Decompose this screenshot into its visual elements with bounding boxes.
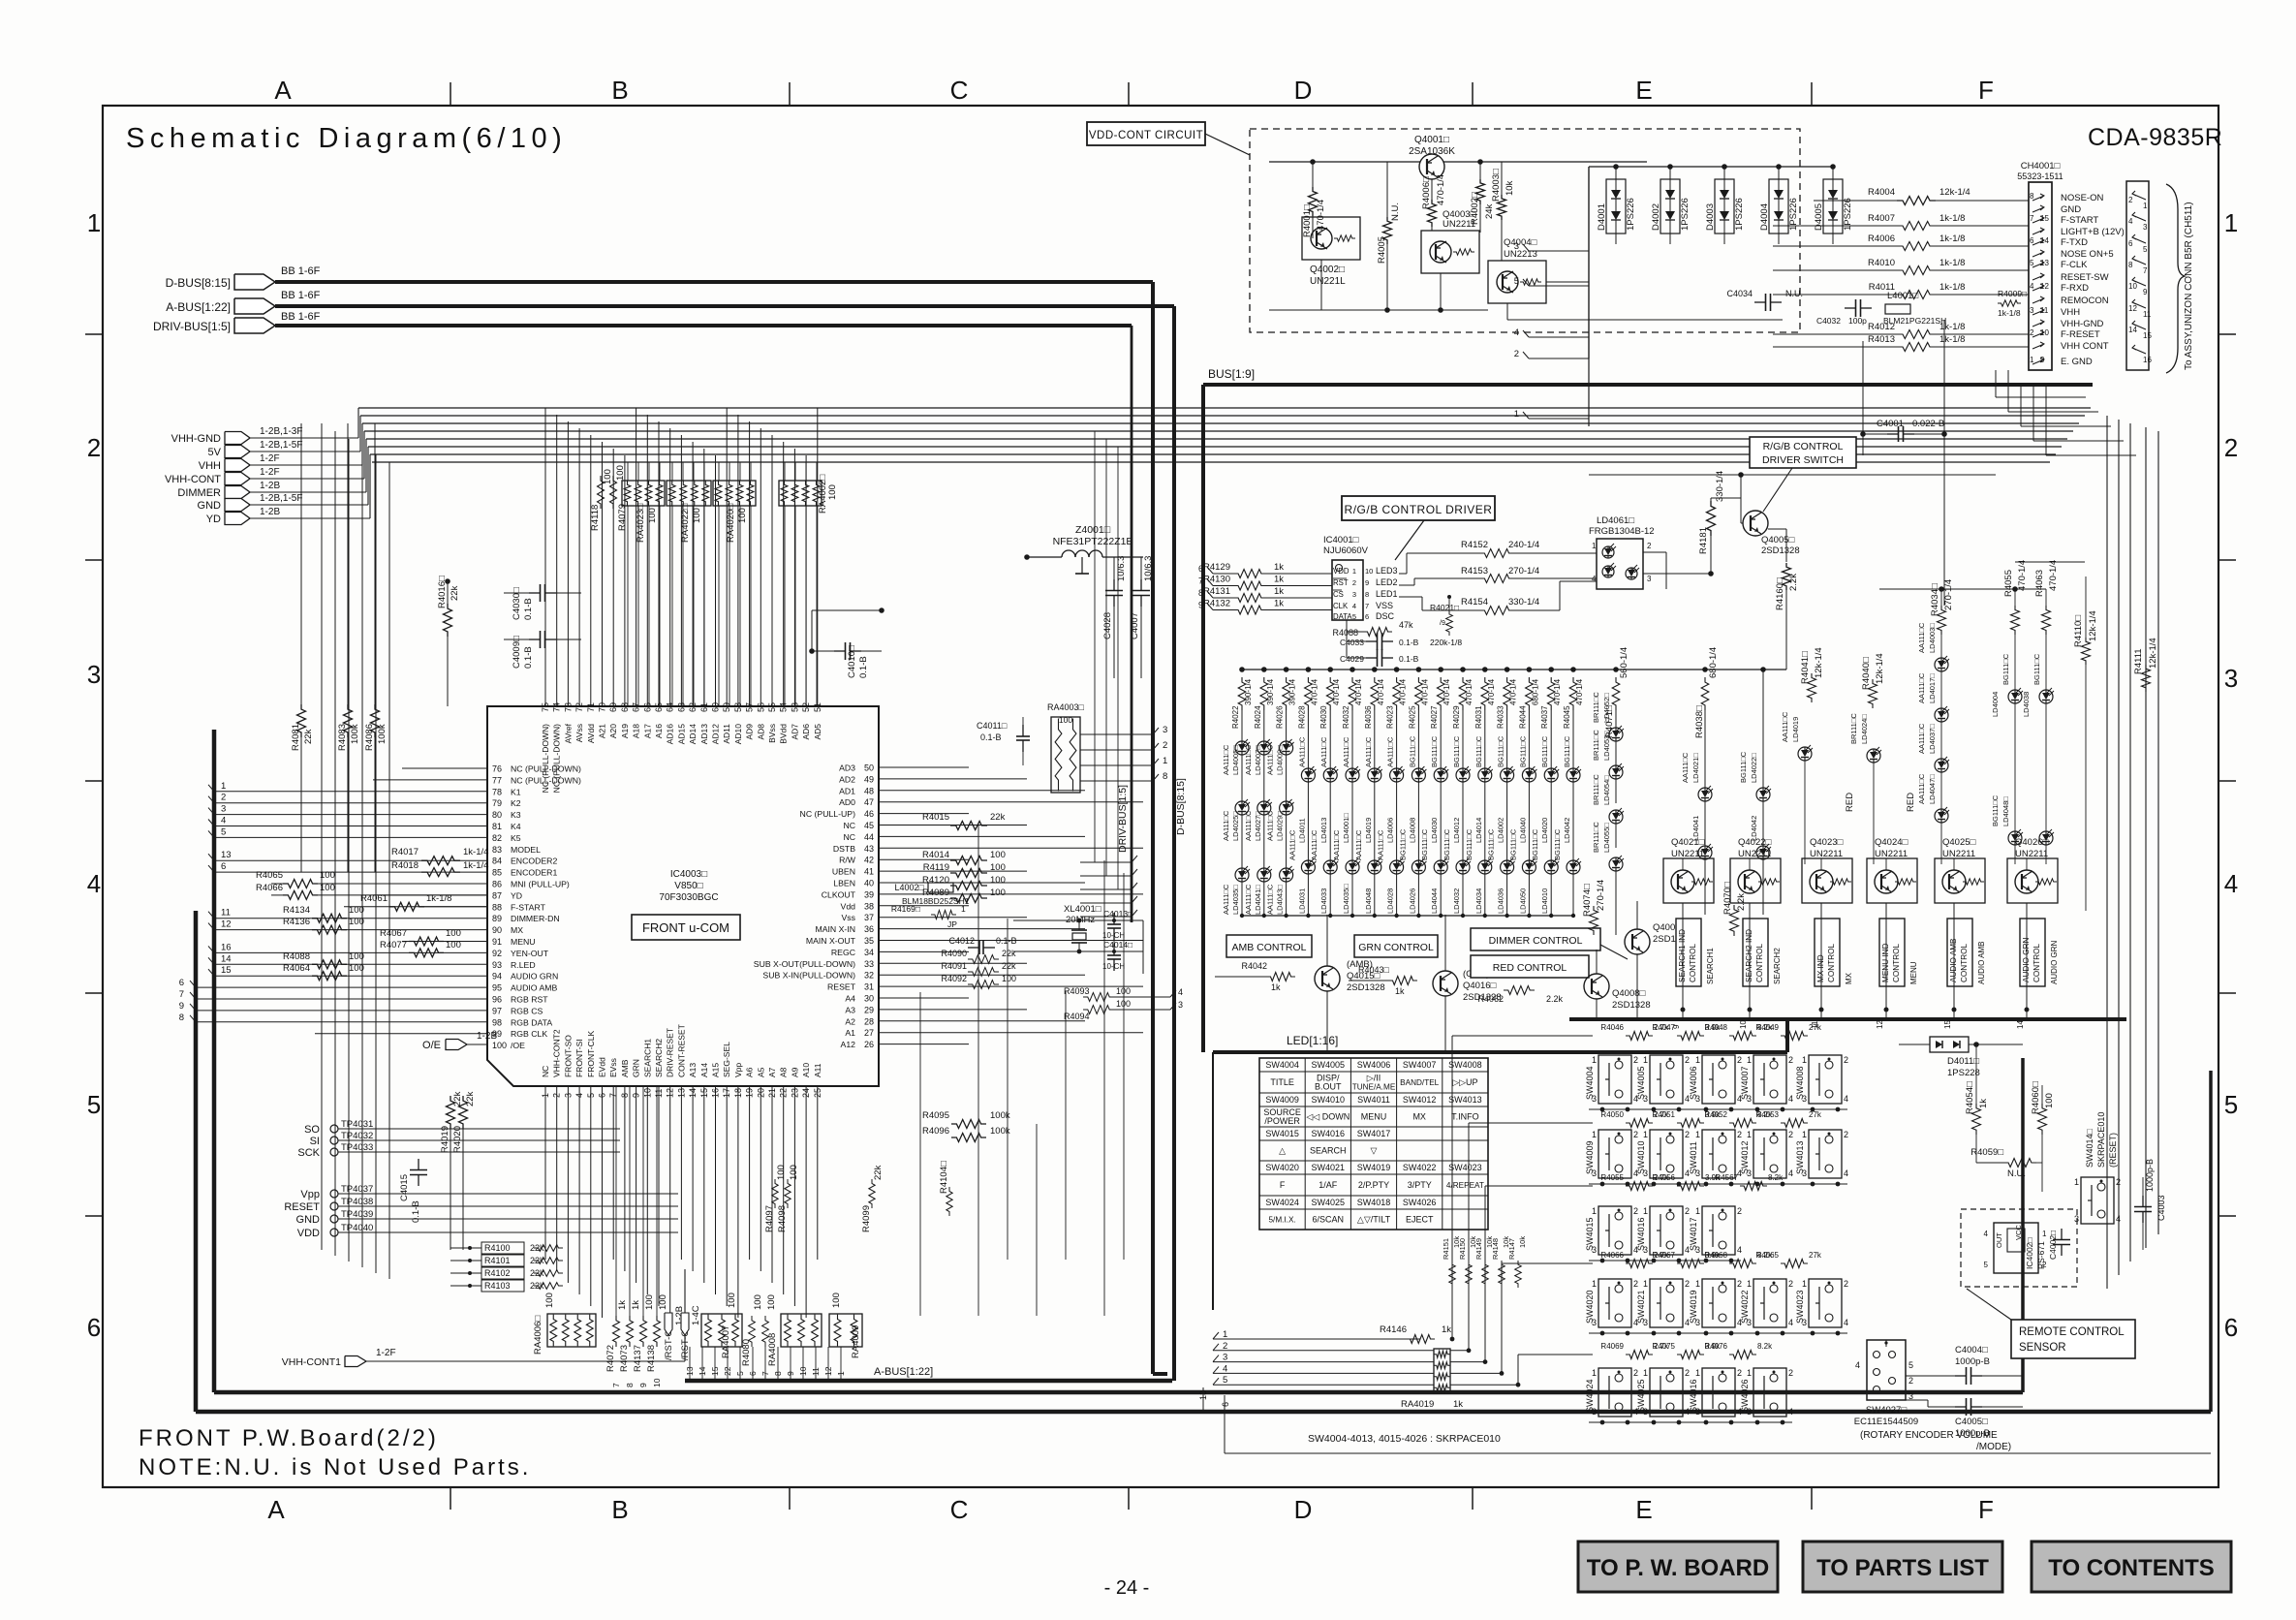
svg-text:A15: A15 [711, 1063, 721, 1077]
svg-text:1: 1 [1352, 567, 1356, 576]
svg-text:BG111□C: BG111□C [1408, 735, 1416, 767]
svg-text:47: 47 [864, 797, 874, 807]
resistor R4025 470-1/4 vertical [1416, 667, 1422, 672]
svg-text:470-1/4: 470-1/4 [1443, 678, 1451, 705]
svg-text:R4153: R4153 [1461, 566, 1488, 576]
svg-text:CONTROL: CONTROL [1960, 944, 1969, 982]
svg-text:6: 6 [1365, 612, 1369, 621]
svg-text:2: 2 [1685, 1130, 1690, 1139]
svg-text:470-1/4: 470-1/4 [1553, 678, 1562, 705]
svg-text:R4080: R4080 [741, 1339, 752, 1366]
svg-text:1: 1 [1643, 1279, 1648, 1289]
svg-text:1PS226: 1PS226 [1734, 198, 1745, 231]
svg-text:12: 12 [1876, 1020, 1884, 1029]
svg-text:100: 100 [766, 1294, 777, 1310]
svg-text:C4004□: C4004□ [1955, 1345, 1988, 1355]
svg-text:BG111□C: BG111□C [1553, 828, 1562, 860]
svg-text:AA111□C: AA111□C [1310, 829, 1319, 860]
svg-text:1: 1 [1163, 756, 1167, 766]
svg-text:AUDIO GRN: AUDIO GRN [511, 972, 558, 981]
svg-text:76: 76 [492, 764, 502, 774]
svg-text:BG111□C: BG111□C [1465, 828, 1474, 860]
svg-text:100k: 100k [350, 724, 360, 744]
LED column R4023 diodes [1396, 710, 1398, 768]
capacitor C4005 1000p-B [1955, 1406, 1967, 1408]
switch SW4006 SKRPACE010 [1702, 1055, 1735, 1104]
svg-text:SW4006: SW4006 [1357, 1060, 1391, 1070]
svg-text:R4061: R4061 [360, 893, 388, 904]
svg-text:9: 9 [1198, 601, 1203, 610]
svg-text:BG111□C: BG111□C [1398, 828, 1407, 860]
resistor R4016 22k vertical [444, 604, 452, 637]
svg-text:2: 2 [1633, 1130, 1638, 1139]
resistor R4021 220k-1/8 vertical [1446, 610, 1453, 636]
svg-text:100: 100 [1059, 715, 1072, 725]
resistor R4001 470-1/4 vertical [1309, 187, 1318, 216]
control label box AUDIO AMB CONTROL [1947, 919, 1972, 986]
svg-text:2: 2 [2042, 1261, 2047, 1269]
svg-text:C4003: C4003 [2156, 1195, 2166, 1221]
svg-text:R4148: R4148 [1491, 1238, 1500, 1260]
svg-text:MODEL: MODEL [511, 845, 541, 855]
svg-text:R4097: R4097 [764, 1205, 775, 1232]
svg-text:R4028: R4028 [1297, 705, 1306, 729]
resistor R4092 100 [968, 981, 999, 989]
svg-text:270-1/4: 270-1/4 [1508, 566, 1539, 576]
svg-text:C4001: C4001 [1877, 419, 1904, 429]
svg-text:A17: A17 [642, 724, 652, 738]
svg-text:22k: 22k [1002, 961, 1016, 971]
svg-text:LD4042: LD4042 [1563, 818, 1571, 843]
svg-text:LD4048□: LD4048□ [2001, 796, 2010, 826]
svg-text:To ASSY,UNIZON CONN B5R (CH511: To ASSY,UNIZON CONN B5R (CH511) [2184, 202, 2194, 370]
transistor Q4005 2SD1328 [1743, 511, 1768, 536]
resistor R4048 8.2k [1729, 1032, 1756, 1041]
svg-text:BB 1-6F: BB 1-6F [281, 290, 321, 301]
switch SW4024 SKRPACE010 [1598, 1368, 1631, 1417]
svg-text:14: 14 [2016, 1020, 2025, 1029]
svg-text:3: 3 [2030, 306, 2034, 315]
svg-text:680-1/4: 680-1/4 [1531, 678, 1539, 705]
svg-text:R4094: R4094 [1064, 1012, 1090, 1021]
svg-text:UN2211: UN2211 [1738, 849, 1771, 859]
svg-text:Q4005□: Q4005□ [1761, 535, 1795, 545]
resistor R4060 100 vertical [2038, 1104, 2047, 1135]
svg-text:R4051: R4051 [1652, 1110, 1675, 1119]
svg-text:C4030□: C4030□ [512, 587, 522, 620]
svg-text:F-RXD: F-RXD [2061, 283, 2089, 294]
svg-text:C4005□: C4005□ [1955, 1417, 1988, 1427]
svg-text:R4064: R4064 [283, 963, 310, 974]
svg-text:SI: SI [310, 1136, 320, 1147]
svg-text:R4030: R4030 [1319, 705, 1328, 729]
svg-text:R4036: R4036 [1364, 705, 1373, 729]
svg-text:DRIV-BUS[1:5]: DRIV-BUS[1:5] [153, 320, 231, 333]
svg-text:86: 86 [492, 880, 502, 889]
svg-text:LD4019: LD4019 [1364, 818, 1373, 843]
svg-text:NJU6060V: NJU6060V [1323, 545, 1369, 556]
svg-text:SUB X-OUT(PULL-DOWN): SUB X-OUT(PULL-DOWN) [754, 959, 855, 969]
resistor R4036 470-1/4 vertical [1372, 667, 1378, 672]
svg-text:LBEN: LBEN [833, 879, 855, 888]
svg-text:R4101: R4101 [484, 1256, 511, 1265]
svg-text:V850□: V850□ [674, 881, 702, 891]
svg-text:FRONT u-COM: FRONT u-COM [642, 920, 729, 935]
svg-text:SW4004: SW4004 [1265, 1060, 1299, 1070]
resistor R4104 vertical [946, 1187, 952, 1216]
svg-text:1: 1 [1802, 1279, 1807, 1289]
svg-text:R4120: R4120 [922, 875, 949, 886]
resistor array RA4008b bottom [781, 1314, 822, 1347]
svg-text:LD4028: LD4028 [1386, 888, 1395, 914]
svg-text:R4018: R4018 [391, 860, 419, 871]
svg-text:1k-1/8: 1k-1/8 [1939, 234, 1965, 244]
VDD-CONT CIRCUIT label box [1087, 122, 1205, 145]
svg-text:10: 10 [652, 1378, 662, 1387]
svg-text:LD4031: LD4031 [1297, 888, 1306, 914]
svg-text:A9: A9 [790, 1067, 799, 1077]
svg-text:AA111□C: AA111□C [1332, 829, 1341, 860]
resistor R4088 47k [1363, 628, 1392, 637]
svg-text:L4001□: L4001□ [1887, 291, 1918, 301]
resistor R4047 3.9k [1677, 1032, 1704, 1041]
vertical resistors R4072 R4073 R4137 R4138 [613, 1316, 620, 1347]
svg-text:LD4054□: LD4054□ [1602, 775, 1611, 805]
svg-text:220k-1/8: 220k-1/8 [1430, 638, 1462, 647]
svg-text:27k: 27k [1809, 1110, 1822, 1119]
svg-text:2: 2 [1514, 349, 1519, 359]
svg-text:BR111□C: BR111□C [1849, 713, 1858, 744]
svg-text:GRN: GRN [632, 1059, 641, 1077]
svg-text:A14: A14 [699, 1063, 709, 1077]
svg-text:2: 2 [1737, 1055, 1742, 1065]
svg-text:Q4002□: Q4002□ [1310, 265, 1345, 275]
svg-text:SO: SO [304, 1124, 320, 1136]
svg-text:(RESET): (RESET) [2108, 1133, 2118, 1168]
svg-text:70F3030BGC: 70F3030BGC [659, 892, 718, 903]
svg-text:10: 10 [1739, 1020, 1748, 1029]
svg-text:LD4050: LD4050 [1518, 888, 1527, 914]
svg-text:R4067: R4067 [380, 928, 407, 939]
svg-text:AA111□C: AA111□C [1266, 744, 1275, 775]
svg-text:470-1/4: 470-1/4 [1436, 174, 1446, 205]
LED LD4024 BR111C [1867, 749, 1880, 763]
svg-text:100: 100 [446, 928, 461, 939]
svg-text:R4077: R4077 [380, 940, 407, 950]
svg-text:1000p-B: 1000p-B [1955, 1356, 1990, 1367]
svg-text:2: 2 [1352, 578, 1356, 587]
svg-text:R4074□: R4074□ [1582, 884, 1593, 917]
svg-text:UN2211: UN2211 [1443, 219, 1475, 230]
svg-text:SW4010: SW4010 [1312, 1095, 1346, 1105]
LED column LD4052-LD4055 BR111C [1615, 710, 1617, 728]
svg-text:8: 8 [1365, 590, 1369, 599]
button TO PARTS LIST [1803, 1542, 2002, 1592]
svg-text:R4169□: R4169□ [891, 904, 920, 914]
resistor array RA4006 100 [547, 1314, 596, 1347]
svg-text:100: 100 [990, 850, 1006, 860]
svg-text:/POWER: /POWER [1264, 1116, 1300, 1126]
svg-text:0.1-B: 0.1-B [980, 732, 1002, 742]
resistor R4028 470-1/4 vertical [1306, 667, 1312, 672]
svg-text:C4013□: C4013□ [1103, 909, 1132, 919]
svg-text:R4150: R4150 [1458, 1238, 1467, 1260]
svg-text:R4047: R4047 [1652, 1023, 1675, 1032]
svg-text:Q4001□: Q4001□ [1414, 135, 1449, 145]
svg-text:55323-1511: 55323-1511 [2017, 171, 2063, 181]
svg-text:△: △ [1279, 1146, 1286, 1156]
svg-text:6/SCAN: 6/SCAN [1313, 1215, 1345, 1225]
svg-text:10-CH: 10-CH [1102, 962, 1125, 971]
svg-text:2: 2 [1788, 1130, 1793, 1139]
svg-text:/9: /9 [1440, 620, 1445, 627]
svg-text:SW4015: SW4015 [1585, 1217, 1595, 1251]
svg-text:R4052: R4052 [1704, 1110, 1727, 1119]
svg-text:100: 100 [349, 905, 364, 916]
svg-text:AD12: AD12 [711, 724, 721, 745]
svg-text:R4044: R4044 [1518, 705, 1527, 729]
svg-text:SEARCH2: SEARCH2 [1773, 948, 1782, 984]
button TO P.W. BOARD [1578, 1542, 1778, 1592]
svg-text:R4059□: R4059□ [1970, 1147, 2003, 1158]
wire Q4005 base rail [1589, 474, 1996, 476]
svg-text:3: 3 [2224, 664, 2238, 693]
svg-text:R4100: R4100 [484, 1243, 511, 1253]
svg-text:83: 83 [492, 845, 502, 855]
svg-text:84: 84 [492, 857, 502, 866]
svg-text:100: 100 [349, 951, 364, 962]
resistor R4110 12k-1/4 vertical [2082, 638, 2091, 665]
svg-text:D-BUS[8:15]: D-BUS[8:15] [1175, 778, 1187, 835]
resistor R4066 2.7k [1626, 1260, 1653, 1268]
svg-text:SW4011: SW4011 [1357, 1095, 1390, 1105]
transistor Q4008 2SD1328 [1584, 974, 1609, 999]
LED column LD4021 LD4041 [1704, 710, 1706, 788]
wires IC bottom pins down [544, 1086, 546, 1260]
svg-text:LD4055□: LD4055□ [1602, 823, 1611, 853]
svg-text:R4152: R4152 [1461, 540, 1488, 550]
svg-text:89: 89 [492, 914, 502, 923]
svg-text:RA4006□: RA4006□ [533, 1316, 543, 1355]
switch SW4008 SKRPACE010 [1809, 1055, 1842, 1104]
svg-text:2: 2 [1685, 1368, 1690, 1378]
svg-text:2/P.PTY: 2/P.PTY [1358, 1180, 1389, 1190]
svg-text:2: 2 [2224, 433, 2238, 462]
svg-text:4: 4 [1737, 1245, 1742, 1255]
svg-text:3: 3 [87, 660, 101, 689]
svg-text:K5: K5 [511, 833, 521, 843]
svg-text:100: 100 [644, 1294, 655, 1310]
capacitors C4028 C4007 10/6.3 [1113, 579, 1115, 591]
svg-text:DSTB: DSTB [833, 844, 855, 854]
svg-text:GND: GND [296, 1214, 321, 1226]
svg-text:2: 2 [1685, 1055, 1690, 1065]
resistor array RA4019 1k [1434, 1349, 1450, 1393]
svg-text:R4027: R4027 [1430, 705, 1439, 729]
svg-text:5: 5 [2143, 245, 2148, 254]
svg-text:1-2B,1-5F: 1-2B,1-5F [260, 493, 302, 504]
svg-text:9: 9 [1365, 578, 1369, 587]
svg-text:6: 6 [2030, 236, 2034, 245]
svg-text:R4099: R4099 [861, 1205, 872, 1232]
resistors R4093 R4094 100 [1083, 993, 1114, 1002]
resistor R4063 470-1/4 vertical [2042, 606, 2051, 635]
svg-text:A: A [267, 1495, 285, 1524]
svg-text:SW4024: SW4024 [1585, 1379, 1595, 1413]
resistors R4067 R4077 100 [409, 937, 444, 946]
svg-text:1: 1 [1643, 1055, 1648, 1065]
svg-text:SW4015: SW4015 [1265, 1129, 1299, 1138]
svg-text:JP: JP [947, 919, 957, 929]
svg-text:4: 4 [2116, 1214, 2121, 1224]
svg-text:D4011□: D4011□ [1947, 1056, 1979, 1067]
svg-text:100: 100 [349, 963, 364, 974]
svg-text:DRIVER SWITCH: DRIVER SWITCH [1762, 454, 1844, 466]
svg-text:6: 6 [221, 861, 226, 872]
svg-text:77: 77 [492, 775, 502, 785]
svg-text:UN2211: UN2211 [2015, 849, 2048, 859]
svg-text:SW4016: SW4016 [1312, 1129, 1346, 1138]
left thick vertical bus outer [194, 911, 199, 1412]
svg-text:100: 100 [776, 1165, 787, 1180]
svg-text:A7: A7 [767, 1067, 777, 1077]
resistor R4027 470-1/4 vertical [1438, 667, 1443, 672]
LED column LD4022 LD4042 [1762, 670, 1764, 788]
svg-text:CONT-RESET: CONT-RESET [676, 1024, 686, 1077]
switch SW4009 SKRPACE010 [1598, 1130, 1631, 1178]
svg-text:LD4007□: LD4007□ [1254, 745, 1262, 775]
svg-text:LD4011: LD4011 [1297, 818, 1306, 843]
resistor R4030 470-1/4 vertical [1327, 667, 1333, 672]
resistor R4061 1k-1/8 [389, 902, 424, 911]
svg-text:470-1/4: 470-1/4 [1575, 678, 1584, 705]
svg-text:BR111□C: BR111□C [1592, 774, 1600, 805]
svg-text:SW4009: SW4009 [1265, 1095, 1299, 1105]
svg-text:1k-1/8: 1k-1/8 [1939, 282, 1965, 293]
diode packs D4001-D4005 1PS226 [1606, 179, 1626, 234]
node stubs 1-5 13 6 from left bus [214, 791, 487, 793]
svg-text:F-RESET: F-RESET [2061, 329, 2100, 340]
svg-text:LED2: LED2 [1376, 577, 1398, 587]
svg-text:B: B [611, 1495, 628, 1524]
GRN CONTROL label box [1354, 935, 1438, 957]
resistor R4050 2.7k [1626, 1119, 1653, 1128]
svg-text:C4010□: C4010□ [847, 645, 857, 678]
svg-text:BG111□C: BG111□C [1443, 828, 1451, 860]
svg-text:F-START: F-START [511, 902, 546, 912]
wire Q4026□ emitter down [2026, 903, 2028, 1019]
svg-text:7: 7 [179, 989, 184, 1000]
svg-text:LD4014: LD4014 [1474, 818, 1483, 843]
svg-text:SW4026: SW4026 [1403, 1198, 1437, 1207]
switch SW4017 SKRPACE010 [1702, 1206, 1735, 1255]
svg-text:2SD1328: 2SD1328 [1761, 545, 1800, 556]
transistor Q4015 2SD1328 AMB [1315, 966, 1340, 991]
wires remote sensor area [2022, 1044, 2024, 1058]
svg-text:LD4043□: LD4043□ [1276, 885, 1285, 915]
svg-text:BG111□C: BG111□C [1452, 735, 1461, 767]
wire switch row bottom [1589, 1260, 1741, 1262]
resistor R4002 24k vertical [1476, 179, 1485, 204]
svg-text:TO CONTENTS: TO CONTENTS [2048, 1555, 2215, 1581]
LED column R4029 diodes [1462, 710, 1464, 768]
svg-text:12k-1/4: 12k-1/4 [1875, 653, 1885, 684]
svg-text:VSS: VSS [1376, 601, 1393, 610]
resistor R4169 1 [931, 911, 956, 919]
svg-text:1-2B: 1-2B [260, 507, 280, 517]
svg-text:LIGHT+B (12V): LIGHT+B (12V) [2061, 227, 2125, 237]
LED column R4044 diodes [1528, 710, 1530, 768]
svg-text:CONTROL: CONTROL [1755, 944, 1764, 982]
svg-text:R4043□: R4043□ [1358, 965, 1390, 975]
svg-text:SW4022: SW4022 [1740, 1290, 1750, 1324]
svg-text:AD9: AD9 [745, 724, 755, 740]
svg-text:C4033: C4033 [1340, 638, 1364, 647]
svg-text:VHH-CONT: VHH-CONT [165, 474, 221, 485]
node stubs 3 2 1 8 D-BUS [1080, 733, 1153, 735]
wire rail second group [1573, 669, 1786, 670]
svg-text:L4002□: L4002□ [895, 883, 925, 892]
diode pack D4011 1PS228 [1930, 1037, 1969, 1052]
svg-text:24k: 24k [1484, 203, 1495, 219]
svg-text:1000p-B: 1000p-B [1955, 1428, 1990, 1439]
control label box MENU IND CONTROL [1879, 919, 1905, 986]
svg-text:R4081: R4081 [291, 724, 301, 751]
svg-text:96: 96 [492, 995, 502, 1005]
svg-text:1: 1 [1643, 1206, 1648, 1216]
svg-text:100k: 100k [990, 1110, 1010, 1121]
svg-text:1k-1/8: 1k-1/8 [1998, 308, 2021, 318]
resistor array RA4020 100 [713, 481, 756, 506]
svg-text:A4: A4 [845, 994, 855, 1004]
svg-text:C4009□: C4009□ [512, 636, 522, 669]
LED matrix bottom rail [1242, 915, 1573, 917]
svg-text:9: 9 [179, 1001, 184, 1012]
svg-text:A1: A1 [845, 1028, 855, 1038]
svg-text:100: 100 [737, 508, 748, 523]
svg-text:AD5: AD5 [813, 724, 822, 740]
svg-text:R4023: R4023 [1386, 705, 1395, 729]
svg-text:/MODE): /MODE) [1976, 1442, 2011, 1452]
svg-text:TP4037: TP4037 [341, 1184, 373, 1195]
svg-text:BG111□C: BG111□C [1991, 794, 2000, 826]
svg-text:470-1/4: 470-1/4 [1310, 678, 1319, 705]
svg-text:1k: 1k [1978, 1099, 1989, 1108]
svg-text:2: 2 [1788, 1279, 1793, 1289]
svg-text:81: 81 [492, 822, 502, 831]
svg-text:RED: RED [1906, 793, 1916, 812]
svg-text:YD: YD [206, 514, 221, 525]
svg-text:CH4001□: CH4001□ [2021, 161, 2061, 171]
svg-text:22k: 22k [1002, 949, 1016, 958]
LED column R4045 diodes [1572, 710, 1574, 768]
wire DRIV-BUS thick [275, 324, 1132, 327]
svg-text:UN221L: UN221L [1310, 276, 1346, 287]
border frame [103, 106, 2218, 1487]
resistor array RA4007 100 bottom [701, 1314, 742, 1347]
svg-text:2: 2 [1844, 1055, 1848, 1065]
svg-text:R4090: R4090 [941, 949, 967, 958]
svg-text:13: 13 [221, 850, 232, 860]
svg-text:1: 1 [1695, 1279, 1700, 1289]
svg-text:YEN-OUT: YEN-OUT [511, 949, 549, 958]
svg-text:SW4023: SW4023 [1448, 1163, 1482, 1172]
svg-text:1: 1 [1514, 409, 1519, 420]
svg-text:1-2B: 1-2B [477, 1031, 497, 1042]
svg-text:UN2211: UN2211 [1671, 849, 1704, 859]
svg-text:VHH: VHH [2061, 307, 2080, 318]
svg-text:LD4019: LD4019 [1791, 717, 1800, 742]
